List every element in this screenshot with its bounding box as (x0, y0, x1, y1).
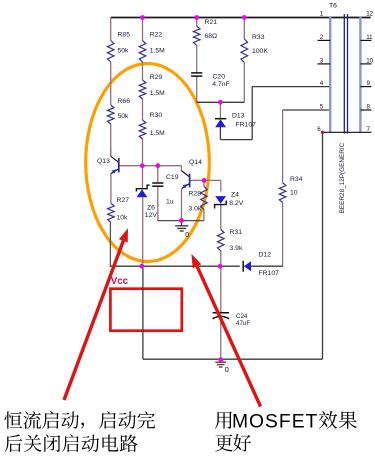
node R33 top rail (242, 15, 247, 20)
node C24 ground rail (218, 357, 223, 362)
svg-text:8.2V: 8.2V (229, 200, 243, 207)
node R31 Vcc rail (218, 264, 223, 269)
svg-text:50k: 50k (118, 48, 130, 55)
annotation text line 1 right (215, 411, 232, 428)
node R30 Q13 base (140, 163, 145, 168)
resistor R33 (241, 34, 268, 62)
ground (bottom rail) (215, 362, 229, 374)
svg-text:2: 2 (320, 34, 324, 41)
svg-text:1u: 1u (166, 0, 174, 2)
wire Q13 base (119, 165, 182, 167)
node Q14 emitter ground (179, 218, 184, 223)
annotation text line 1 left (4, 411, 79, 429)
wire Z6 to Vcc rail (142, 198, 144, 267)
svg-text:7: 7 (367, 126, 371, 133)
resistor R28 (189, 186, 208, 212)
wire node to Z6 (142, 166, 144, 189)
wire transformer pin6 down (322, 132, 324, 359)
wire R31 to Vcc rail (220, 251, 222, 266)
resistor R21 (193, 19, 217, 45)
svg-text:3: 3 (320, 57, 324, 64)
svg-text:FR107: FR107 (236, 122, 257, 129)
svg-text:R21: R21 (205, 19, 218, 26)
svg-text:1.5M: 1.5M (150, 48, 165, 55)
resistor R22 (139, 32, 165, 63)
svg-text:R29: R29 (150, 74, 163, 81)
transformer T6 (318, 3, 372, 134)
svg-text:4.7nF: 4.7nF (212, 81, 229, 88)
wire C24 to ground (220, 317, 222, 360)
svg-text:12: 12 (366, 11, 373, 18)
svg-text:1.5M: 1.5M (150, 130, 165, 137)
svg-text:100K: 100K (252, 48, 268, 55)
zener Z4 (215, 192, 244, 209)
svg-text:D13: D13 (232, 113, 245, 120)
capacitor C20 (191, 0, 230, 81)
svg-text:1u: 1u (166, 199, 174, 206)
resistor R27 (108, 197, 130, 222)
svg-text:FR107: FR107 (259, 270, 280, 277)
diode D12 (243, 252, 279, 278)
wire C20 bottom lead (196, 76, 198, 102)
svg-text:68Ω: 68Ω (205, 33, 218, 40)
svg-text:Q14: Q14 (189, 159, 202, 166)
red arrow right (191, 254, 260, 407)
svg-text:8: 8 (367, 104, 371, 111)
svg-text:C19: C19 (166, 174, 179, 181)
svg-text:10k: 10k (117, 215, 129, 222)
svg-text:C20: C20 (213, 74, 226, 81)
wire C19 top lead (157, 166, 159, 183)
wire R27 bottom to Vcc rail (109, 222, 111, 266)
pin numbers T6 (317, 11, 373, 133)
wire R22/R29/R30 column (142, 18, 144, 41)
transformer part number (339, 142, 346, 213)
svg-text:D12: D12 (259, 252, 272, 259)
zener Z6 (136, 185, 157, 219)
wire D13 anode path to pin 4 (219, 127, 221, 139)
wire R34 bottom lead (282, 203, 284, 267)
svg-text:9: 9 (367, 80, 371, 87)
svg-text:10: 10 (366, 57, 373, 64)
svg-text:R30: R30 (150, 112, 163, 119)
svg-text:1.5M: 1.5M (150, 90, 165, 97)
node C19 Q13 base (156, 163, 161, 168)
svg-text:10: 10 (290, 190, 298, 197)
svg-text:3.0k: 3.0k (189, 206, 202, 213)
svg-text:R85: R85 (118, 32, 131, 39)
resistor R30 (139, 112, 165, 139)
svg-text:4.7nF: 4.7nF (213, 0, 230, 2)
wire C24 top lead (220, 266, 222, 312)
svg-text:3.9k: 3.9k (230, 245, 243, 252)
wire snubber rail (196, 101, 244, 103)
node R21 top rail (194, 15, 199, 20)
svg-text:Z4: Z4 (231, 192, 239, 199)
wire Q14 base (190, 179, 221, 181)
svg-text:11: 11 (366, 34, 373, 41)
svg-text:Z6: Z6 (147, 205, 155, 212)
wire bottom ground rail (143, 358, 323, 360)
svg-text:R33: R33 (252, 34, 265, 41)
capacitor C19 (152, 0, 178, 186)
wire Q13 emitter to R27 (110, 174, 112, 204)
ground (emitter rail) (175, 220, 189, 239)
node R28 Q14 base (202, 178, 207, 183)
svg-text:12V: 12V (145, 212, 158, 219)
svg-text:5: 5 (320, 104, 324, 111)
node D13 snubber rail (218, 100, 223, 105)
wire C19 bottom lead (157, 187, 159, 221)
annotation text line 2 left (5, 434, 138, 452)
resistor R31 (218, 229, 243, 252)
svg-text:0: 0 (185, 232, 189, 239)
wire Q14 emitter down (181, 189, 183, 220)
red callout box (110, 289, 181, 331)
svg-text:R22: R22 (150, 32, 163, 39)
svg-text:50k: 50k (118, 113, 130, 120)
svg-text:47uF: 47uF (236, 320, 250, 327)
wire R28 bottom lead (203, 210, 205, 221)
highlight ellipse (86, 64, 210, 262)
resistor R29 (139, 74, 165, 99)
red arrow left (64, 228, 128, 400)
svg-text:R34: R34 (290, 176, 303, 183)
wire Vcc node down (142, 266, 144, 359)
svg-text:6: 6 (317, 126, 321, 133)
node R22 top rail (140, 15, 145, 20)
wire top Vcc rail (111, 17, 371, 19)
transistor Q14 (181, 159, 202, 189)
wire D13 top lead (219, 102, 221, 118)
resistor R85 (107, 32, 130, 63)
svg-text:R31: R31 (230, 229, 243, 236)
svg-text:1: 1 (320, 11, 324, 18)
svg-text:MOSFET: MOSFET (232, 411, 318, 432)
svg-text:Vcc: Vcc (111, 276, 129, 287)
wire R28 top lead (203, 180, 205, 186)
svg-text:4: 4 (320, 80, 324, 87)
svg-text:R66: R66 (118, 98, 131, 105)
capacitor C24 (213, 313, 251, 327)
svg-text:C24: C24 (236, 313, 248, 320)
wire R21 column (196, 18, 198, 27)
wire Vcc rail (horizontal) (110, 265, 240, 267)
svg-text:T6: T6 (329, 3, 337, 10)
wire emitter rail (158, 220, 204, 222)
annotation text line 2 right (215, 434, 232, 451)
diode D13 (215, 113, 256, 129)
svg-text:Q13: Q13 (97, 158, 110, 165)
resistor R66 (107, 98, 130, 124)
wire R85/R66 column (110, 18, 112, 41)
transistor Q13 (97, 148, 119, 174)
wire R33 column (243, 18, 245, 39)
node Vcc rail (139, 264, 144, 269)
svg-text:BEER28_12P(GENERIC: BEER28_12P(GENERIC (339, 142, 346, 213)
wire Z4 top lead (220, 180, 222, 191)
wire pin 5 to R34 (283, 109, 331, 111)
svg-text:0: 0 (225, 365, 229, 374)
wire Z4 to R31 (220, 205, 222, 230)
resistor R34 (279, 176, 302, 203)
svg-text:R27: R27 (117, 197, 130, 204)
wire D12 anode to R34 (251, 265, 283, 267)
node pin 6 junction (321, 131, 324, 134)
svg-text:R28: R28 (189, 191, 202, 198)
